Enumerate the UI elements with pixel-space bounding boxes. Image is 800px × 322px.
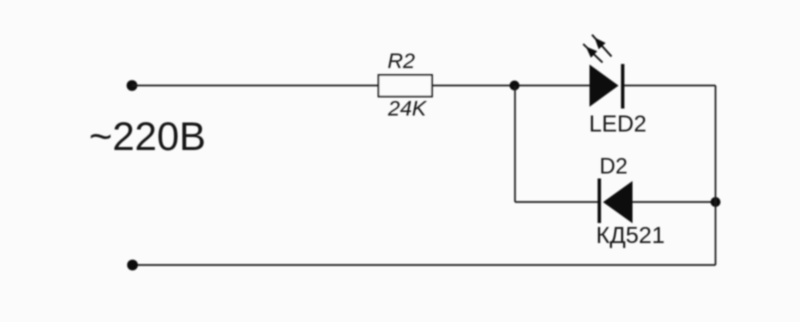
svg-text:~220В: ~220В (89, 115, 206, 159)
diode D2 triangle (pointing left) (603, 181, 633, 223)
svg-text:LED2: LED2 (589, 110, 647, 136)
node: bottom-left terminal dot (127, 260, 138, 271)
wire: LED2 cathode to top-right corner (622, 85, 716, 87)
svg-text:D2: D2 (600, 154, 628, 179)
wire: lower branch from vertical to diode D2 anode-bar (515, 201, 600, 203)
wire: vertical branch from junction down to diode D2 branch (514, 86, 516, 203)
node: top-left terminal dot (127, 80, 138, 91)
LED LED2 cathode bar (621, 64, 624, 109)
wire: bottom return wire (133, 264, 716, 266)
LED2 light emission arrow (lower) (583, 44, 602, 63)
resistor R2 (379, 75, 433, 97)
svg-text:R2: R2 (388, 49, 416, 73)
node: junction of top wire and diode branch (510, 81, 520, 91)
wire: diode D2 to right junction (631, 201, 716, 203)
svg-text:КД521: КД521 (596, 222, 665, 248)
LED LED2 triangle (anode, pointing right) (590, 65, 619, 107)
wire: top wire from left terminal to resistor R2 (132, 85, 379, 87)
wire: right vertical from top wire down to bottom wire (715, 86, 717, 266)
diode D2 cathode bar (598, 179, 601, 224)
node: right junction dot (711, 197, 721, 207)
LED2 light emission arrow (upper) (592, 35, 612, 57)
wire: resistor R2 to LED2 anode, passing junction (431, 85, 591, 87)
svg-text:24K: 24K (387, 97, 428, 121)
